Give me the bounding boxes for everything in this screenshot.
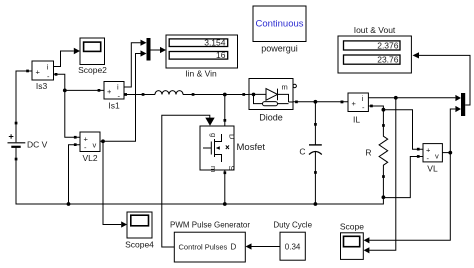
svg-text:Mosfet: Mosfet bbox=[237, 142, 266, 153]
ground bus wire bbox=[16, 159, 383, 204]
scope Scope bbox=[340, 222, 364, 260]
node I junction capacitor on bus bbox=[314, 202, 318, 206]
wire IL minus to resistor R bbox=[368, 106, 383, 125]
wire node B to Scope4 bbox=[103, 141, 127, 227]
svg-text:2.376: 2.376 bbox=[377, 40, 399, 50]
wire DC V plus to Is3 plus bbox=[16, 71, 32, 123]
svg-text:Continuous: Continuous bbox=[255, 19, 303, 30]
inductor L bbox=[152, 91, 184, 95]
node F junction resistor bottom bbox=[382, 195, 386, 199]
svg-text:+: + bbox=[107, 87, 112, 96]
svg-text:+: + bbox=[36, 68, 41, 77]
svg-text:23.76: 23.76 bbox=[377, 55, 399, 65]
mux M2 bbox=[461, 93, 465, 116]
voltage measurement VL bbox=[423, 144, 442, 174]
mux M1 bbox=[147, 38, 151, 61]
svg-text:VL2: VL2 bbox=[82, 153, 97, 163]
svg-text:D: D bbox=[231, 243, 237, 252]
wire Diode cathode to IL plus bbox=[293, 101, 348, 104]
svg-text:v: v bbox=[93, 141, 97, 150]
svg-text:16: 16 bbox=[216, 50, 226, 60]
svg-text:m: m bbox=[209, 166, 218, 172]
svg-text:DC V: DC V bbox=[27, 140, 48, 150]
wire node J to Scope input 2 bbox=[364, 98, 396, 254]
wire Duty Cycle to PWM input D bbox=[246, 243, 281, 249]
svg-text:R: R bbox=[365, 148, 371, 158]
wire node E to VL plus bbox=[383, 110, 423, 151]
svg-text:3.154: 3.154 bbox=[204, 37, 226, 47]
wire mux M2 output to display Iout & Vout bbox=[413, 52, 471, 105]
wire node A to VL2 plus bbox=[65, 90, 80, 138]
display Iin & Vin bbox=[166, 35, 238, 79]
svg-text:IL: IL bbox=[353, 115, 360, 125]
svg-text:Is1: Is1 bbox=[108, 101, 120, 111]
svg-text:C: C bbox=[299, 147, 305, 157]
svg-text:Iout & Vout: Iout & Vout bbox=[354, 25, 396, 35]
svg-text:S: S bbox=[227, 166, 236, 171]
diode D1 Diode bbox=[249, 79, 298, 123]
capacitor C bbox=[299, 102, 321, 204]
current measurement Is1 bbox=[104, 82, 127, 111]
wire inductor to Diode anode bbox=[184, 93, 249, 96]
svg-text:Diode: Diode bbox=[259, 113, 283, 123]
svg-text:Scope4: Scope4 bbox=[125, 240, 154, 250]
DC voltage source DC V bbox=[8, 122, 48, 161]
wire Is1 minus to inductor bbox=[124, 93, 152, 96]
constant Duty Cycle bbox=[273, 221, 312, 261]
wire Is3 i to Scope2 bbox=[54, 48, 81, 67]
svg-text:+: + bbox=[352, 99, 357, 108]
wire node K to Scope input 1 bbox=[364, 153, 451, 244]
scope Scope4 bbox=[125, 212, 154, 250]
svg-text:Scope: Scope bbox=[340, 222, 364, 232]
wire Mosfet source to ground bus bbox=[224, 170, 226, 204]
svg-text:Scope2: Scope2 bbox=[78, 65, 107, 75]
node C junction to Mosfet drain bbox=[223, 93, 227, 126]
svg-text:VL: VL bbox=[427, 164, 438, 174]
svg-text:PWM Pulse Generator: PWM Pulse Generator bbox=[170, 221, 250, 230]
node J junction on IL i wire bbox=[394, 96, 398, 100]
svg-text:Duty Cycle: Duty Cycle bbox=[273, 221, 312, 230]
node H junction Mosfet source on bus bbox=[223, 202, 227, 206]
current measurement IL bbox=[341, 93, 373, 125]
svg-text:v: v bbox=[435, 152, 439, 161]
powergui block bbox=[253, 6, 306, 54]
wire IL i to mux M2 input 1 bbox=[368, 95, 461, 101]
wire Is1 i to mux M1 input 1 bbox=[124, 40, 147, 87]
svg-text:g: g bbox=[209, 133, 218, 137]
wire node K to mux M2 input 2 bbox=[450, 106, 461, 153]
wire VL v output to node K bbox=[442, 152, 450, 154]
svg-text:D: D bbox=[228, 134, 237, 140]
node B junction on VL2 output bbox=[101, 139, 105, 143]
wire VL2 minus to ground bus bbox=[69, 145, 81, 204]
wire Is3 minus to node A bbox=[54, 74, 65, 90]
mosfet Q1 Mosfet bbox=[200, 126, 265, 174]
node D junction to capacitor C bbox=[314, 100, 318, 104]
svg-text:powergui: powergui bbox=[261, 44, 298, 54]
svg-text:0.34: 0.34 bbox=[285, 242, 301, 251]
wire mux M1 output to display Iin & Vin bbox=[151, 47, 167, 53]
svg-text:Control Pulses: Control Pulses bbox=[179, 243, 228, 252]
resistor R bbox=[365, 124, 387, 178]
svg-text:m: m bbox=[282, 83, 288, 92]
current measurement Is3 bbox=[26, 61, 57, 91]
wire VL2 v output to mux M1 input 2 bbox=[100, 50, 147, 141]
svg-text:Is3: Is3 bbox=[36, 81, 48, 91]
display Iout & Vout bbox=[338, 25, 411, 73]
PWM pulse generator block bbox=[170, 221, 250, 262]
node A junction bbox=[63, 89, 67, 93]
node K junction bbox=[448, 151, 452, 155]
voltage measurement VL2 bbox=[74, 132, 100, 163]
wire PWM output to Mosfet gate bbox=[162, 115, 215, 247]
node G junction VL2 minus on bus bbox=[67, 202, 71, 206]
scope Scope2 bbox=[78, 38, 107, 75]
wire node A to Is1 plus bbox=[65, 89, 104, 92]
wire VL minus to node F bbox=[383, 155, 423, 198]
node E junction to VL plus bbox=[382, 108, 386, 112]
svg-text:Iin & Vin: Iin & Vin bbox=[185, 69, 217, 79]
